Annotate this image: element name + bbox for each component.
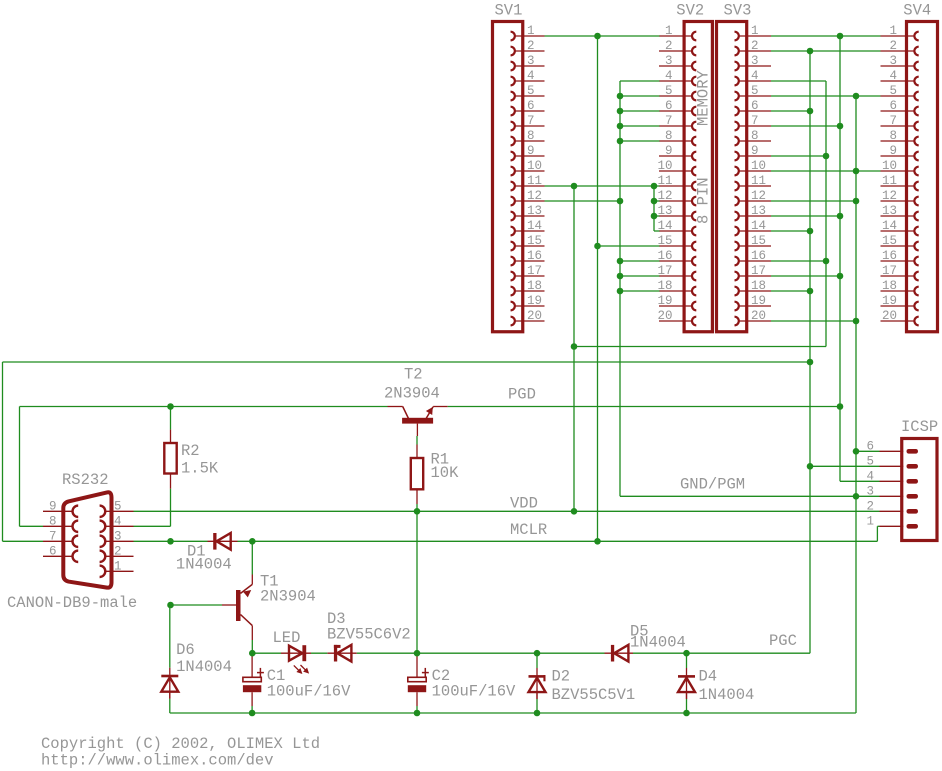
svg-text:18: 18 bbox=[882, 279, 897, 293]
svg-text:7: 7 bbox=[49, 529, 57, 543]
svg-text:4: 4 bbox=[114, 514, 122, 528]
svg-text:8: 8 bbox=[665, 129, 673, 143]
svg-text:11: 11 bbox=[882, 174, 897, 188]
svg-text:1N4004: 1N4004 bbox=[630, 634, 686, 652]
svg-text:17: 17 bbox=[527, 264, 542, 278]
svg-text:6: 6 bbox=[751, 99, 759, 113]
svg-text:ICSP: ICSP bbox=[901, 418, 938, 436]
svg-text:3: 3 bbox=[665, 54, 673, 68]
svg-text:19: 19 bbox=[882, 294, 897, 308]
svg-text:5: 5 bbox=[527, 84, 535, 98]
svg-text:8: 8 bbox=[527, 129, 535, 143]
svg-text:RS232: RS232 bbox=[62, 471, 109, 489]
svg-text:19: 19 bbox=[751, 294, 766, 308]
svg-text:11: 11 bbox=[751, 174, 766, 188]
svg-text:1N4004: 1N4004 bbox=[699, 686, 755, 704]
svg-text:http://www.olimex.com/dev: http://www.olimex.com/dev bbox=[41, 752, 274, 770]
svg-text:9: 9 bbox=[527, 144, 535, 158]
svg-text:4: 4 bbox=[751, 69, 759, 83]
svg-text:19: 19 bbox=[527, 294, 542, 308]
svg-text:1: 1 bbox=[114, 559, 122, 573]
svg-text:1: 1 bbox=[527, 24, 535, 38]
svg-text:9: 9 bbox=[665, 144, 673, 158]
svg-text:3: 3 bbox=[889, 54, 897, 68]
svg-text:10: 10 bbox=[882, 159, 897, 173]
svg-text:2: 2 bbox=[751, 39, 759, 53]
svg-text:5: 5 bbox=[665, 84, 673, 98]
svg-text:4: 4 bbox=[889, 69, 897, 83]
svg-text:R2: R2 bbox=[181, 442, 200, 460]
svg-text:15: 15 bbox=[882, 234, 897, 248]
svg-text:10: 10 bbox=[527, 159, 542, 173]
svg-text:7: 7 bbox=[889, 114, 897, 128]
svg-text:7: 7 bbox=[751, 114, 759, 128]
svg-text:PGD: PGD bbox=[508, 386, 536, 404]
svg-text:GND/PGM: GND/PGM bbox=[680, 476, 745, 494]
svg-text:SV4: SV4 bbox=[903, 2, 931, 20]
svg-text:17: 17 bbox=[882, 264, 897, 278]
svg-text:MEMORY: MEMORY bbox=[695, 69, 713, 126]
svg-text:20: 20 bbox=[527, 309, 542, 323]
svg-text:5: 5 bbox=[114, 499, 122, 513]
svg-text:18: 18 bbox=[527, 279, 542, 293]
svg-text:100uF/16V: 100uF/16V bbox=[432, 683, 516, 701]
svg-text:7: 7 bbox=[527, 114, 535, 128]
svg-text:Copyright (C) 2002, OLIMEX Ltd: Copyright (C) 2002, OLIMEX Ltd bbox=[41, 735, 320, 753]
svg-text:13: 13 bbox=[882, 204, 897, 218]
svg-text:SV3: SV3 bbox=[724, 2, 752, 20]
svg-text:18: 18 bbox=[751, 279, 766, 293]
svg-text:BZV55C5V1: BZV55C5V1 bbox=[552, 686, 636, 704]
svg-text:16: 16 bbox=[657, 249, 672, 263]
svg-text:D2: D2 bbox=[552, 668, 571, 686]
svg-text:10K: 10K bbox=[431, 464, 460, 482]
svg-text:10: 10 bbox=[657, 159, 672, 173]
svg-text:SV2: SV2 bbox=[676, 2, 704, 20]
svg-text:10: 10 bbox=[751, 159, 766, 173]
svg-text:13: 13 bbox=[657, 204, 672, 218]
svg-text:17: 17 bbox=[751, 264, 766, 278]
svg-text:SV1: SV1 bbox=[495, 2, 523, 20]
svg-text:9: 9 bbox=[751, 144, 759, 158]
svg-text:14: 14 bbox=[657, 219, 672, 233]
svg-text:100uF/16V: 100uF/16V bbox=[267, 683, 351, 701]
svg-text:MCLR: MCLR bbox=[510, 521, 547, 539]
svg-text:2: 2 bbox=[889, 39, 897, 53]
svg-text:D4: D4 bbox=[699, 668, 718, 686]
svg-text:11: 11 bbox=[527, 174, 542, 188]
svg-text:12: 12 bbox=[657, 189, 672, 203]
svg-text:T2: T2 bbox=[404, 366, 423, 384]
svg-text:15: 15 bbox=[751, 234, 766, 248]
svg-text:VDD: VDD bbox=[510, 495, 538, 513]
svg-text:2N3904: 2N3904 bbox=[384, 384, 440, 402]
svg-text:13: 13 bbox=[751, 204, 766, 218]
svg-text:5: 5 bbox=[889, 84, 897, 98]
svg-text:16: 16 bbox=[751, 249, 766, 263]
svg-text:D6: D6 bbox=[176, 641, 195, 659]
svg-text:15: 15 bbox=[527, 234, 542, 248]
svg-text:9: 9 bbox=[889, 144, 897, 158]
svg-text:6: 6 bbox=[889, 99, 897, 113]
svg-text:1.5K: 1.5K bbox=[181, 460, 219, 478]
svg-text:6: 6 bbox=[527, 99, 535, 113]
svg-text:3: 3 bbox=[527, 54, 535, 68]
svg-text:16: 16 bbox=[882, 249, 897, 263]
svg-text:11: 11 bbox=[657, 174, 672, 188]
svg-text:12: 12 bbox=[751, 189, 766, 203]
svg-text:BZV55C6V2: BZV55C6V2 bbox=[327, 626, 411, 644]
svg-text:8: 8 bbox=[49, 514, 57, 528]
svg-text:3: 3 bbox=[751, 54, 759, 68]
svg-text:1: 1 bbox=[866, 514, 874, 528]
svg-text:8: 8 bbox=[889, 129, 897, 143]
svg-text:14: 14 bbox=[882, 219, 897, 233]
svg-text:1N4004: 1N4004 bbox=[176, 556, 232, 574]
svg-text:3: 3 bbox=[114, 529, 122, 543]
svg-text:18: 18 bbox=[657, 279, 672, 293]
svg-text:8: 8 bbox=[751, 129, 759, 143]
svg-text:LED: LED bbox=[273, 629, 301, 647]
svg-text:PGC: PGC bbox=[769, 632, 797, 650]
svg-text:2: 2 bbox=[665, 39, 673, 53]
svg-text:2N3904: 2N3904 bbox=[260, 588, 316, 606]
svg-text:20: 20 bbox=[657, 309, 672, 323]
svg-text:19: 19 bbox=[657, 294, 672, 308]
svg-text:20: 20 bbox=[751, 309, 766, 323]
svg-text:8 PIN: 8 PIN bbox=[695, 177, 713, 224]
svg-text:1: 1 bbox=[665, 24, 673, 38]
svg-text:13: 13 bbox=[527, 204, 542, 218]
svg-text:6: 6 bbox=[49, 544, 57, 558]
svg-text:1: 1 bbox=[889, 24, 897, 38]
svg-text:12: 12 bbox=[527, 189, 542, 203]
svg-text:17: 17 bbox=[657, 264, 672, 278]
svg-text:4: 4 bbox=[527, 69, 535, 83]
svg-text:16: 16 bbox=[527, 249, 542, 263]
svg-text:2: 2 bbox=[527, 39, 535, 53]
svg-text:14: 14 bbox=[751, 219, 766, 233]
svg-text:CANON-DB9-male: CANON-DB9-male bbox=[7, 594, 137, 612]
svg-text:6: 6 bbox=[665, 99, 673, 113]
svg-text:14: 14 bbox=[527, 219, 542, 233]
svg-text:2: 2 bbox=[114, 544, 122, 558]
svg-text:1N4004: 1N4004 bbox=[176, 658, 232, 676]
svg-text:4: 4 bbox=[665, 69, 673, 83]
svg-text:15: 15 bbox=[657, 234, 672, 248]
svg-text:20: 20 bbox=[882, 309, 897, 323]
svg-text:9: 9 bbox=[49, 499, 57, 513]
svg-text:12: 12 bbox=[882, 189, 897, 203]
svg-text:5: 5 bbox=[751, 84, 759, 98]
svg-text:1: 1 bbox=[751, 24, 759, 38]
svg-text:7: 7 bbox=[665, 114, 673, 128]
